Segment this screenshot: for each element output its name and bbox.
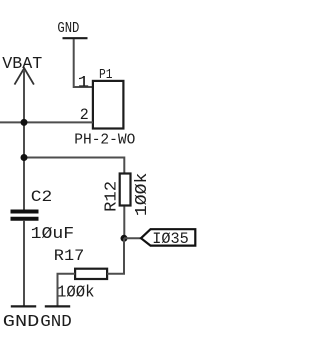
wire dot to label I035 [124,237,141,239]
capacitor C2 plates [11,210,39,214]
global label I035 flag [141,229,195,245]
resistor R17 body [75,269,107,279]
junction dot [21,154,28,161]
wire to R12 [24,158,124,173]
svg-text:1ØØk: 1ØØk [133,173,152,217]
wire GND to P1 pin1 [74,39,93,87]
svg-text:R12: R12 [103,181,122,212]
svg-text:1ØuF: 1ØuF [31,225,75,244]
wire pin2 row [0,121,93,123]
wire R12 to dot [123,207,125,239]
VBAT arrow [15,68,34,84]
connector P1 [93,81,124,129]
svg-text:C2: C2 [31,188,53,206]
power symbol GND (bottom left) bar [11,305,36,307]
svg-text:IØ35: IØ35 [152,230,189,248]
wire R17 left to GND [58,274,76,306]
svg-text:1: 1 [78,73,90,91]
svg-text:GND: GND [40,312,72,331]
wire VBAT down to C2 [23,70,25,210]
junction dot [21,119,28,126]
wire R17 right up to dot [107,238,124,273]
svg-text:P1: P1 [99,68,113,83]
svg-text:1ØØk: 1ØØk [57,282,95,301]
wire C2 to GND [23,221,25,306]
svg-text:GND: GND [3,312,40,331]
resistor R12 body [120,174,131,206]
junction dot [121,235,128,242]
svg-text:GND: GND [57,21,79,37]
svg-text:2: 2 [80,106,89,124]
svg-text:PH-2-WO: PH-2-WO [74,132,135,148]
svg-text:R17: R17 [54,247,84,265]
power symbol GND (bottom right) bar [45,305,70,307]
